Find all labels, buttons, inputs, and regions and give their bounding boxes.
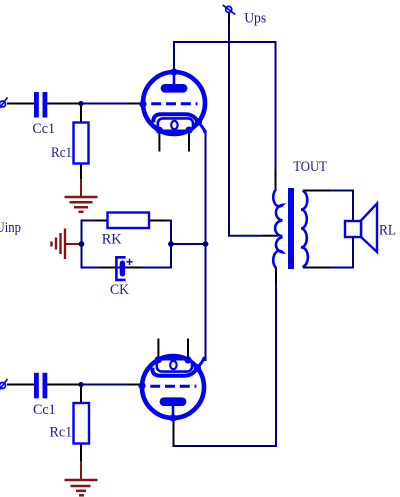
svg-text:RL: RL <box>379 222 396 238</box>
svg-text:Ups: Ups <box>244 10 266 26</box>
svg-text:TOUT: TOUT <box>293 159 327 175</box>
svg-text:RK: RK <box>102 232 122 248</box>
svg-text:Cc1: Cc1 <box>32 121 55 137</box>
svg-text:Cc1: Cc1 <box>33 402 56 418</box>
svg-text:CK: CK <box>110 282 129 298</box>
svg-text:Rc1: Rc1 <box>51 145 72 161</box>
svg-text:Uinp: Uinp <box>0 220 21 236</box>
svg-text:Rc1: Rc1 <box>50 425 73 441</box>
